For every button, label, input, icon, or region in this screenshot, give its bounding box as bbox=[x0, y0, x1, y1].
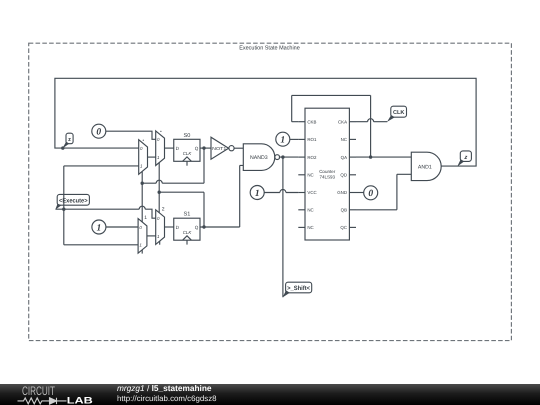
pin QC bbox=[340, 225, 356, 230]
svg-text:74LS93: 74LS93 bbox=[319, 175, 335, 180]
svg-text:Counter: Counter bbox=[319, 169, 336, 174]
NAND gate NAND3 bbox=[243, 144, 279, 171]
wire mux A1 output to mux A2 input 1 bbox=[148, 156, 156, 158]
svg-text:Execution State Machine: Execution State Machine bbox=[239, 44, 300, 51]
svg-text:Q: Q bbox=[195, 146, 199, 151]
svg-text:NC: NC bbox=[307, 225, 313, 230]
mux B1 (2:1 multiplexer, mirrored) bbox=[138, 215, 147, 254]
wire CKB feedback loop to QA node bbox=[292, 95, 371, 157]
svg-text:NC: NC bbox=[307, 173, 313, 178]
svg-text:D: D bbox=[176, 146, 180, 151]
svg-text:AND1: AND1 bbox=[418, 164, 432, 170]
wire select line for mux A2 and mux B2 bbox=[158, 163, 160, 213]
svg-text:0: 0 bbox=[139, 225, 142, 230]
svg-text:NC: NC bbox=[307, 208, 313, 213]
wire GND pin to source 0 bbox=[356, 192, 364, 194]
wire QB to AND1 bottom input bbox=[356, 174, 411, 210]
svg-text:CLK: CLK bbox=[183, 151, 193, 156]
svg-text:GND: GND bbox=[337, 190, 347, 195]
flag CLK (input flag) bbox=[387, 106, 407, 122]
wire Execute vertical distribution bbox=[63, 166, 65, 245]
mux A1 (2:1 multiplexer) bbox=[139, 140, 148, 175]
counter U1 74LS93 bbox=[305, 108, 349, 240]
svg-text:z: z bbox=[463, 155, 467, 161]
wire net z: AND1 output feedback to top-left and mux A1 input 0 bbox=[55, 78, 476, 166]
svg-text:CLK: CLK bbox=[183, 230, 193, 235]
wire from source 0 to mux A2 input 0 bbox=[106, 131, 156, 139]
wire S0 Q select feedback down and left (hops over A2/B2 select line) bbox=[142, 148, 204, 183]
digital source V4 value 0 (at counter GND) bbox=[364, 186, 378, 200]
svg-text:1: 1 bbox=[139, 243, 142, 248]
svg-text:1: 1 bbox=[280, 136, 285, 146]
flip-flop S1 (D flip-flop) bbox=[174, 212, 200, 245]
svg-text:S0: S0 bbox=[183, 133, 190, 139]
footer bar bbox=[0, 384, 540, 405]
svg-text:D: D bbox=[176, 225, 180, 230]
svg-text:CKB: CKB bbox=[307, 119, 316, 124]
svg-text:VCC: VCC bbox=[307, 190, 316, 195]
svg-text:0: 0 bbox=[157, 137, 160, 142]
svg-text:LAB: LAB bbox=[67, 395, 93, 405]
svg-text:RO2: RO2 bbox=[307, 155, 317, 160]
junction S1 Q node bbox=[202, 225, 205, 228]
wire NAND3 output to counter RO2 pin bbox=[279, 156, 299, 158]
pin NC left 1 bbox=[298, 173, 313, 178]
svg-text:0: 0 bbox=[368, 189, 373, 199]
pin RO1 bbox=[298, 137, 317, 142]
wire S1 Q select feedback up and left bbox=[159, 192, 204, 227]
junction on A1/B1 select line bbox=[141, 182, 144, 185]
wire mux B2 output to S1 D input bbox=[165, 226, 174, 228]
NOT gate NOT1 bbox=[211, 137, 234, 159]
pin VCC bbox=[298, 190, 316, 195]
wire mux A2 output to S0 D input bbox=[165, 147, 174, 149]
svg-text:QC: QC bbox=[340, 225, 347, 230]
svg-text:QB: QB bbox=[341, 208, 347, 213]
svg-text:NC: NC bbox=[341, 137, 347, 142]
svg-text:1: 1 bbox=[140, 164, 143, 169]
flip-flop S0 (D flip-flop) bbox=[174, 133, 200, 166]
pin CKA bbox=[338, 119, 356, 124]
junction QA node bbox=[369, 155, 372, 158]
digital source V0 value 0 (top left) bbox=[92, 124, 106, 138]
junction S0 Q node bbox=[202, 146, 205, 149]
wire NOT1 output to NAND3 top input bbox=[234, 147, 243, 149]
junction Execute node bbox=[62, 208, 65, 211]
svg-text:0: 0 bbox=[157, 216, 160, 221]
flag Shift (input flag bottom) bbox=[283, 282, 312, 297]
svg-text:z: z bbox=[68, 137, 71, 143]
wire source 1 to RO1 pin bbox=[290, 138, 299, 140]
svg-text:0: 0 bbox=[140, 146, 143, 151]
svg-text:RO1: RO1 bbox=[307, 137, 317, 142]
pin QA bbox=[341, 155, 356, 160]
mux A2 (2:1 multiplexer) bbox=[156, 131, 165, 166]
svg-text:1: 1 bbox=[144, 215, 147, 221]
svg-text:mrgzg1 / l5_statemahine: mrgzg1 / l5_statemahine bbox=[117, 383, 212, 393]
svg-text:1: 1 bbox=[97, 223, 102, 233]
digital source V3 value 1 (to counter VCC, hops over shift line) bbox=[250, 186, 264, 200]
pin RO2 bbox=[298, 155, 317, 160]
digital source V1 value 1 (bottom left) bbox=[92, 220, 106, 234]
footer logo resistor-diode squiggle bbox=[18, 398, 67, 404]
svg-text:QA: QA bbox=[341, 155, 347, 160]
svg-text:1: 1 bbox=[157, 155, 160, 160]
svg-text:0: 0 bbox=[96, 128, 101, 138]
schematic dashed border bbox=[29, 43, 512, 340]
flag z (node name flag, top left) bbox=[61, 133, 73, 150]
wire Execute horizontal run to mux B2 input 0 (hops over B1 select) bbox=[56, 206, 156, 218]
svg-text:NAND3: NAND3 bbox=[250, 155, 268, 161]
svg-text:Q: Q bbox=[195, 225, 199, 230]
svg-text:NOT1: NOT1 bbox=[212, 146, 227, 151]
junction NAND3 output node bbox=[281, 155, 284, 158]
wire select line for mux A1 and mux B1 bbox=[141, 172, 143, 222]
wire source 1 to VCC pin bbox=[264, 190, 298, 193]
junction on A2/B2 select line bbox=[158, 191, 161, 194]
mux B2 (2:1 multiplexer, mirrored) bbox=[156, 206, 165, 244]
svg-text:2: 2 bbox=[162, 206, 165, 212]
pin NC left 3 bbox=[298, 225, 313, 230]
wire mux B1 output to mux B2 input 1 bbox=[147, 235, 156, 237]
pin GND bbox=[337, 190, 356, 195]
wire CKA to CLK flag (hops over loop wire) bbox=[356, 119, 387, 122]
wire S0 Q output to NOT1 input bbox=[200, 147, 211, 149]
svg-text:1: 1 bbox=[255, 189, 260, 199]
wire source 1 to mux B1 input 0 bbox=[106, 226, 138, 228]
pin NC right 1 bbox=[341, 137, 356, 142]
svg-text:CKA: CKA bbox=[338, 119, 347, 124]
wire Execute to mux A1 input 1 bbox=[64, 165, 139, 167]
svg-text:http://circuitlab.com/c6gdsz8: http://circuitlab.com/c6gdsz8 bbox=[117, 394, 217, 403]
digital source V2 value 1 (to counter RO1) bbox=[276, 132, 290, 146]
svg-text:1: 1 bbox=[157, 234, 160, 239]
flag Execute (input flag) bbox=[55, 194, 89, 209]
svg-text:S1: S1 bbox=[183, 212, 190, 218]
pin CKB bbox=[298, 119, 316, 124]
svg-text:CIRCUIT: CIRCUIT bbox=[22, 384, 55, 398]
svg-text:>_Shift<: >_Shift< bbox=[287, 285, 310, 292]
wire NAND3 output down to Shift flag bbox=[282, 157, 284, 297]
pin QB bbox=[341, 208, 356, 213]
pin QD bbox=[340, 173, 356, 178]
flag z output (node name flag at AND1 output) bbox=[457, 151, 471, 167]
wire Execute to mux B1 input 1 bbox=[64, 244, 138, 246]
and gate AND1 bbox=[411, 152, 441, 180]
wire QA to AND1 top input bbox=[356, 156, 411, 158]
svg-text:CLK: CLK bbox=[393, 110, 405, 116]
pin NC left 2 bbox=[298, 208, 313, 213]
wire S1 Q to NAND3 bottom input bbox=[200, 165, 243, 227]
svg-text:QD: QD bbox=[340, 173, 347, 178]
